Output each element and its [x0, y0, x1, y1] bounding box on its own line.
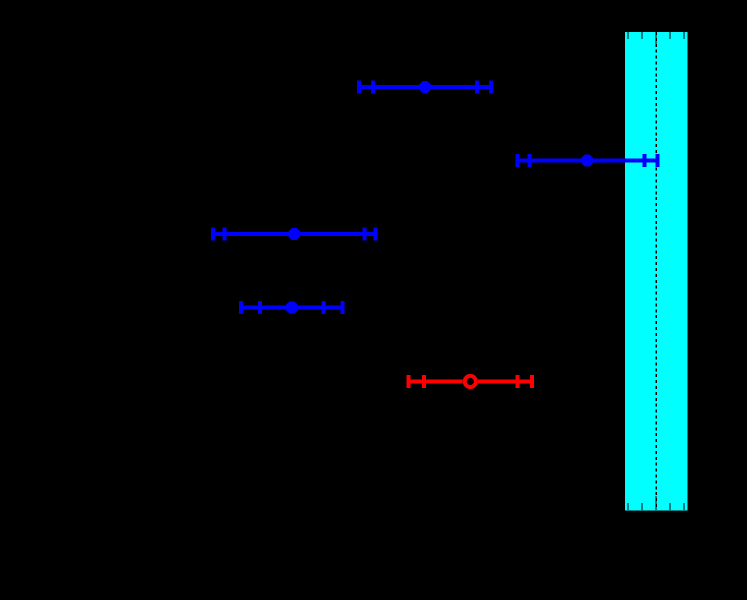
measurement 2 marker: [581, 155, 593, 167]
average open-circle marker (red): [465, 376, 476, 387]
dashed average line: [655, 32, 657, 510]
measurement 4 error bar (blue): [239, 301, 345, 314]
measurement 1 error bar (blue): [357, 81, 493, 94]
top axis ticks: [628, 32, 684, 46]
measurement 3 error bar (blue): [211, 228, 378, 241]
average measurement error bar (red): [407, 375, 535, 388]
measurement 4 marker: [286, 302, 298, 314]
measurement 2 error bar (blue): [515, 154, 659, 167]
measurement 3 marker: [288, 228, 300, 240]
bottom axis ticks: [628, 496, 684, 510]
average band (cyan): [625, 32, 688, 511]
measurement 1 marker: [419, 81, 431, 93]
